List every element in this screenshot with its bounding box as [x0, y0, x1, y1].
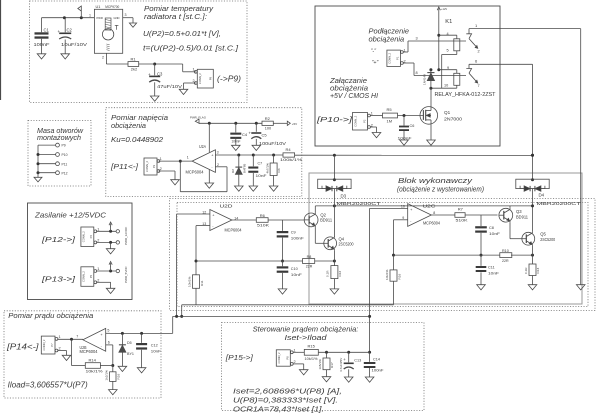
svg-text:K1: K1: [445, 19, 452, 25]
svg-text:Pomiar prądu obciążenia: Pomiar prądu obciążenia: [8, 311, 93, 320]
svg-text:5: 5: [447, 49, 449, 53]
svg-text:BD911: BD911: [320, 218, 333, 223]
svg-text:CONN_2: CONN_2: [388, 52, 392, 63]
svg-text:RELAY_HFKA-012-2ZST: RELAY_HFKA-012-2ZST: [435, 92, 497, 98]
svg-text:R7: R7: [458, 207, 464, 212]
svg-text:CONN_2: CONN_2: [198, 73, 202, 84]
svg-text:1: 1: [160, 157, 162, 161]
svg-text:Iset->Iload: Iset->Iload: [285, 333, 328, 342]
svg-text:47uF/10V: 47uF/10V: [157, 84, 182, 89]
svg-text:MCP6004: MCP6004: [225, 228, 243, 233]
svg-text:Q3: Q3: [516, 209, 522, 214]
svg-text:8: 8: [433, 211, 435, 215]
svg-text:U2A: U2A: [199, 144, 206, 149]
svg-text:P8: P8: [286, 356, 290, 360]
svg-text:10nF: 10nF: [151, 349, 162, 353]
svg-text:2: 2: [217, 163, 219, 167]
svg-text:R3: R3: [277, 168, 281, 172]
svg-text:(obciążenie z wysterowaniem): (obciążenie z wysterowaniem): [397, 185, 484, 194]
svg-text:BD911: BD911: [516, 215, 529, 220]
svg-text:GND: GND: [114, 16, 120, 20]
svg-text:R12: R12: [338, 271, 342, 277]
svg-text:BAT85: BAT85: [243, 163, 247, 173]
svg-text:D3: D3: [341, 194, 347, 199]
svg-text:4k7/1%: 4k7/1%: [266, 163, 270, 174]
svg-text:100nF: 100nF: [232, 139, 242, 143]
svg-text:C2: C2: [67, 28, 73, 33]
svg-text:P4: P4: [89, 235, 93, 239]
svg-text:100nF: 100nF: [34, 42, 51, 47]
svg-text:C11: C11: [488, 266, 495, 270]
svg-text:C6: C6: [410, 124, 415, 128]
svg-text:P5: P5: [89, 274, 93, 278]
svg-text:0.1R: 0.1R: [326, 270, 330, 277]
svg-text:P2: P2: [363, 119, 367, 123]
svg-text:1k2/1%: 1k2/1%: [105, 370, 109, 381]
svg-text:C8: C8: [489, 226, 494, 230]
svg-text:[P14<-]: [P14<-]: [6, 343, 40, 352]
svg-text:radiatora t [st.C.]:: radiatora t [st.C.]:: [144, 12, 207, 21]
svg-text:U2C: U2C: [423, 203, 436, 208]
svg-text:Masa otworów: Masa otworów: [37, 128, 84, 135]
svg-text:3: 3: [217, 150, 219, 154]
svg-text:PWR_12VDC: PWR_12VDC: [124, 226, 128, 245]
svg-text:R16: R16: [397, 274, 401, 280]
svg-text:100k/1%: 100k/1%: [280, 157, 303, 162]
svg-text:2k2: 2k2: [131, 67, 138, 72]
svg-text:100: 100: [265, 127, 271, 131]
svg-text:obciążenia: obciążenia: [369, 34, 405, 43]
svg-text:C12: C12: [151, 344, 158, 348]
svg-text:Sterowanie prądem obciążenia:: Sterowanie prądem obciążenia:: [253, 324, 359, 333]
svg-text:10k/1%: 10k/1%: [187, 276, 191, 287]
svg-text:C13: C13: [354, 358, 361, 362]
svg-text:+: +: [148, 72, 151, 77]
svg-text:4.7uF/25V: 4.7uF/25V: [339, 357, 343, 372]
svg-text:510K: 510K: [456, 217, 468, 222]
svg-text:R6: R6: [260, 213, 266, 218]
svg-text:P12: P12: [62, 171, 68, 175]
svg-text:PWR_5VDC: PWR_5VDC: [124, 265, 128, 283]
svg-text:100nF: 100nF: [291, 237, 305, 241]
svg-text:1: 1: [371, 112, 373, 116]
svg-text:t=(U(P2)-0.5)/0.01 [st.C.]: t=(U(P2)-0.5)/0.01 [st.C.]: [143, 44, 239, 53]
svg-text:[P10->]: [P10->]: [316, 115, 354, 124]
svg-text:22R: 22R: [306, 265, 313, 269]
svg-text:Ku=0.0448902: Ku=0.0448902: [111, 135, 163, 144]
svg-text:10: 10: [401, 205, 405, 209]
svg-text:12: 12: [202, 211, 206, 215]
svg-text:Q2: Q2: [320, 212, 326, 217]
svg-text:Iload=3,606557*U(P7): Iload=3,606557*U(P7): [8, 380, 88, 389]
svg-text:Q1: Q1: [444, 110, 451, 115]
svg-text:C7: C7: [258, 162, 263, 166]
svg-text:R11: R11: [200, 280, 204, 286]
svg-text:R1: R1: [131, 56, 137, 61]
svg-text:CONN_2: CONN_2: [82, 271, 86, 282]
svg-text:[P15->]: [P15->]: [225, 353, 254, 362]
svg-text:MCP6004: MCP6004: [186, 170, 205, 175]
svg-text:100nF: 100nF: [372, 368, 384, 372]
svg-text:U(P2)=0.5+0.01*t [V],: U(P2)=0.5+0.01*t [V],: [143, 29, 221, 38]
svg-text:montażowych: montażowych: [37, 135, 81, 142]
svg-text:+5V / CMOS HI: +5V / CMOS HI: [330, 91, 378, 100]
svg-text:10k/1%: 10k/1%: [305, 356, 318, 361]
svg-text:2: 2: [193, 79, 195, 83]
svg-text:3: 3: [125, 13, 127, 17]
svg-text:(->P9): (->P9): [217, 75, 241, 84]
svg-text:1: 1: [294, 348, 296, 352]
svg-text:Q5: Q5: [540, 232, 546, 237]
svg-text:[P11<-]: [P11<-]: [110, 162, 139, 171]
svg-text:510K: 510K: [257, 223, 269, 228]
svg-text:P11: P11: [62, 162, 68, 166]
svg-text:C14: C14: [373, 357, 380, 361]
svg-text:P10: P10: [62, 153, 68, 157]
svg-text:10nF: 10nF: [291, 273, 303, 277]
svg-text:10nF: 10nF: [256, 174, 268, 178]
svg-text:"+": "+": [372, 60, 380, 66]
svg-text:CONN_2: CONN_2: [145, 161, 149, 172]
svg-text:R5: R5: [387, 107, 393, 112]
svg-text:P1: P1: [396, 56, 400, 60]
svg-text:2N7000: 2N7000: [444, 117, 462, 122]
svg-text:MCP6004: MCP6004: [423, 221, 441, 226]
svg-text:2SC5200: 2SC5200: [339, 241, 355, 246]
svg-text:2: 2: [102, 56, 104, 60]
svg-text:7: 7: [76, 335, 78, 339]
svg-text:1: 1: [193, 68, 195, 72]
svg-text:CONN_2: CONN_2: [277, 352, 281, 363]
svg-text:6: 6: [108, 341, 110, 345]
svg-text:R2: R2: [265, 116, 271, 121]
svg-text:5: 5: [107, 329, 109, 333]
svg-text:1M: 1M: [387, 119, 393, 124]
svg-text:CONN_2: CONN_2: [42, 339, 46, 350]
svg-text:[P13->]: [P13->]: [41, 275, 77, 284]
svg-text:1: 1: [59, 335, 61, 339]
svg-text:10: 10: [444, 84, 448, 88]
svg-text:[P12->]: [P12->]: [41, 235, 77, 244]
svg-text:P9: P9: [209, 77, 213, 81]
svg-text:C3: C3: [157, 71, 163, 76]
svg-text:10uF/10V: 10uF/10V: [61, 42, 87, 47]
svg-text:100uF/10V: 100uF/10V: [259, 141, 286, 146]
svg-text:C10: C10: [291, 267, 298, 271]
svg-text:D2: D2: [231, 169, 235, 173]
svg-text:R17: R17: [330, 362, 334, 368]
svg-text:P9: P9: [62, 144, 66, 148]
svg-text:R10: R10: [502, 249, 509, 253]
svg-text:Zasilanie +12/5VDC: Zasilanie +12/5VDC: [34, 211, 107, 220]
svg-text:R16: R16: [117, 374, 121, 380]
svg-text:MCP9700: MCP9700: [105, 5, 119, 9]
svg-text:Iset=2,608696*U(P8) [A],: Iset=2,608696*U(P8) [A],: [233, 387, 342, 396]
svg-text:C9: C9: [291, 231, 296, 235]
svg-text:U(P8)=0,383333*Iset [V].: U(P8)=0,383333*Iset [V].: [233, 396, 338, 405]
svg-text:3: 3: [416, 37, 418, 41]
svg-text:P3: P3: [152, 164, 156, 168]
svg-text:P7: P7: [50, 343, 54, 347]
svg-text:1: 1: [187, 156, 189, 160]
svg-text:CONN_2: CONN_2: [82, 231, 86, 242]
svg-text:2: 2: [160, 167, 162, 171]
svg-text:U2D: U2D: [220, 203, 233, 208]
svg-text:R14: R14: [89, 358, 97, 363]
svg-text:R8: R8: [307, 255, 312, 259]
svg-text:10k/1%: 10k/1%: [385, 269, 389, 280]
svg-text:4: 4: [447, 32, 449, 36]
svg-text:1: 1: [89, 14, 91, 18]
svg-text:1: 1: [97, 228, 99, 232]
svg-text:+12V: +12V: [441, 7, 447, 11]
svg-text:R15: R15: [308, 344, 316, 349]
svg-text:+5V: +5V: [292, 122, 297, 126]
svg-text:MCP6004: MCP6004: [80, 349, 99, 354]
svg-text:C1: C1: [44, 28, 50, 33]
svg-text:1k5/1%: 1k5/1%: [318, 359, 322, 370]
svg-text:obciążenia: obciążenia: [111, 121, 146, 130]
svg-text:8: 8: [416, 71, 418, 75]
svg-text:+: +: [58, 29, 61, 34]
svg-text:2: 2: [478, 50, 480, 54]
svg-text:R4: R4: [286, 147, 292, 152]
svg-text:10k/1%: 10k/1%: [86, 368, 104, 373]
svg-text:10nF: 10nF: [488, 272, 500, 276]
svg-text:2SC5200: 2SC5200: [540, 237, 556, 242]
svg-text:7: 7: [478, 84, 480, 88]
svg-text:PWR: PWR: [97, 16, 103, 20]
svg-text:100nF: 100nF: [398, 137, 413, 141]
svg-text:PWR_FLAG: PWR_FLAG: [190, 116, 207, 120]
svg-text:U1: U1: [96, 5, 101, 9]
svg-text:10nF: 10nF: [489, 232, 501, 236]
svg-text:BY1: BY1: [127, 352, 134, 356]
svg-text:C4: C4: [242, 132, 248, 137]
svg-text:R13: R13: [536, 268, 540, 274]
svg-text:D5: D5: [127, 341, 132, 345]
svg-text:OCR1A=78,43*Iset [1].: OCR1A=78,43*Iset [1].: [233, 405, 324, 414]
svg-text:2: 2: [294, 360, 296, 364]
svg-text:MBR20200CT: MBR20200CT: [537, 201, 581, 206]
svg-text:9: 9: [447, 66, 449, 70]
svg-text:0.1R: 0.1R: [524, 267, 528, 274]
svg-text:D4: D4: [539, 193, 545, 198]
svg-text:C5: C5: [262, 133, 268, 138]
svg-text:CONN_2: CONN_2: [353, 115, 357, 126]
svg-text:22R: 22R: [502, 259, 509, 263]
svg-text:MBR20200CT: MBR20200CT: [337, 201, 381, 206]
